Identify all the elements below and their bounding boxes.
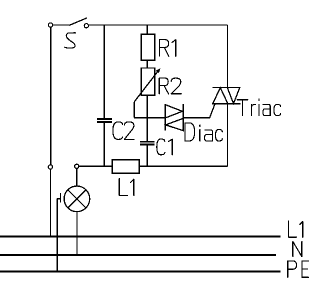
wire C2 to bottom wire: [103, 123, 105, 167]
wire switch feed down left: [50, 27, 52, 165]
connector node on switch feed: [48, 165, 52, 169]
switch S: [49, 18, 89, 28]
label L1 rail: [289, 221, 303, 237]
wire R2 wiper drop: [133, 102, 135, 118]
capacitor C2: [97, 119, 112, 122]
wire C1 to bottom wire: [146, 144, 148, 166]
diac: [165, 104, 183, 131]
label R2: [159, 78, 181, 94]
label C1: [157, 139, 173, 155]
wire junction to lamp: [76, 168, 78, 186]
inductor L1: [112, 160, 139, 173]
wire diac to triac gate: [183, 104, 215, 118]
wire top to R1: [146, 25, 148, 34]
wire junction to L1 choke: [79, 165, 112, 167]
potentiometer R2: [134, 68, 160, 102]
wire node to diac: [134, 117, 165, 119]
wire triac to bottom wire: [227, 104, 229, 167]
wire lamp to N rail: [76, 212, 78, 255]
wire top to triac: [227, 25, 229, 88]
wire L1 to triac bottom: [139, 165, 227, 167]
lamp: [64, 186, 90, 212]
wire connector to L1 rail: [49, 169, 51, 237]
label Diac: [185, 123, 222, 141]
PE terminal bar at lamp: [57, 193, 60, 202]
rail N: [0, 254, 276, 256]
label S: [65, 33, 76, 48]
resistor R1: [141, 34, 155, 60]
label C2: [113, 122, 134, 139]
wire top rail of circuit: [89, 24, 228, 26]
label L1: [119, 179, 134, 196]
rail PE: [0, 271, 281, 273]
label Triac: [237, 99, 280, 116]
wire top to C2: [103, 25, 105, 119]
label R1: [160, 40, 176, 57]
label N rail: [293, 241, 302, 256]
wire R2 bottom to C1: [146, 95, 148, 141]
capacitor C1: [140, 142, 155, 145]
triac: [213, 88, 241, 104]
rail L1: [0, 236, 281, 238]
label PE rail: [288, 261, 309, 277]
wire R1 to R2: [146, 60, 148, 68]
connector node lamp junction: [75, 164, 79, 168]
wire PE tap to PE rail: [56, 199, 58, 272]
